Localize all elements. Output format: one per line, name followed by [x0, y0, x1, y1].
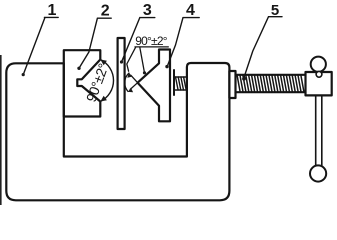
workpiece plate 3 — [118, 38, 125, 129]
V-block 4 (male wedge prism) — [138, 50, 170, 122]
svg-text:4: 4 — [186, 2, 195, 19]
leader line 1 — [22, 17, 59, 76]
arrowhead bottom of block-4 arc — [128, 88, 133, 93]
handle neck — [316, 71, 322, 77]
arrowhead top of block-2 arc — [100, 60, 107, 66]
leader line 2 — [77, 18, 111, 70]
screw tip flange line — [173, 70, 175, 95]
body: C-frame outline — [6, 63, 229, 200]
screw threaded rod (item 5) — [236, 75, 306, 92]
V-block 2 (female prism) — [64, 50, 101, 116]
wedge face extension lines — [130, 75, 137, 89]
svg-text:90°±2°: 90°±2° — [135, 34, 167, 48]
thrust collar on right side of post — [229, 71, 235, 98]
leader line 5 — [242, 17, 282, 81]
leader line 3 — [120, 18, 155, 64]
handle top ball — [311, 57, 326, 72]
svg-text:2: 2 — [101, 2, 110, 19]
handle rod — [316, 95, 322, 165]
dimension arc 90deg of block 4 — [125, 73, 129, 91]
leader line 4 — [165, 18, 199, 69]
leader of top angle label — [127, 47, 169, 75]
svg-text:5: 5 — [271, 2, 279, 19]
screw head block — [306, 72, 332, 95]
svg-text:1: 1 — [48, 2, 57, 19]
svg-text:3: 3 — [143, 2, 152, 19]
arrowhead top of block-4 arc — [127, 73, 132, 78]
arrowhead bottom of block-2 arc — [100, 96, 107, 102]
scan artifact left strip — [0, 55, 2, 205]
dimension arc 90deg of block 2 — [100, 60, 113, 102]
screw thread segment left of post — [174, 77, 187, 90]
handle bottom ball — [310, 165, 326, 181]
